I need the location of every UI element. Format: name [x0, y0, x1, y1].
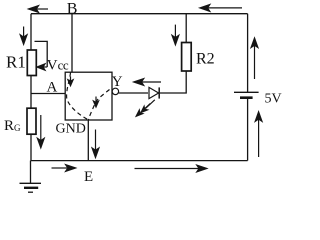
svg-text:R2: R2 — [196, 51, 215, 68]
svg-text:GND: GND — [56, 122, 86, 137]
svg-text:Y: Y — [112, 74, 123, 90]
svg-text:Vcc: Vcc — [47, 57, 69, 73]
svg-text:R1: R1 — [6, 53, 26, 72]
svg-text:5V: 5V — [265, 92, 282, 107]
svg-text:A: A — [47, 80, 58, 96]
svg-text:E: E — [84, 169, 93, 185]
svg-text:B: B — [67, 0, 78, 17]
svg-text:RG: RG — [4, 118, 21, 134]
